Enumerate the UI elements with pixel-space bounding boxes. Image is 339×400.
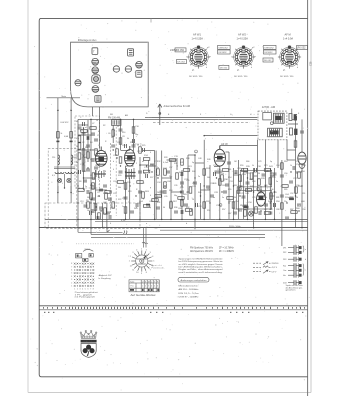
node K31: [209, 202, 210, 203]
node K32: [216, 177, 217, 178]
capacitor C11: [119, 129, 123, 131]
capacitor C57: [97, 216, 99, 220]
resistor R39: [232, 202, 235, 208]
svg-text:Änderungen vorbehalten: Änderungen vorbehalten: [181, 279, 208, 282]
svg-text:6,3: 6,3: [52, 175, 55, 177]
svg-text:6p: 6p: [98, 131, 100, 133]
wire V1: [77, 119, 79, 232]
svg-text:2: 2: [71, 282, 72, 284]
capacitor C16: [150, 164, 154, 166]
resistor R76: [181, 200, 184, 206]
IF pin grid box2: [89, 254, 93, 258]
Graetz crest banner: [81, 340, 97, 343]
socket AF M pin box left2: [264, 50, 277, 54]
resistor R68: [117, 181, 123, 184]
wire H26: [287, 149, 296, 151]
svg-text:R51: R51: [207, 210, 210, 212]
wire H30: [145, 117, 152, 119]
tube top-view AZ11 square: [95, 96, 101, 103]
capacitor C75: [138, 191, 142, 193]
svg-text:C9: C9: [90, 175, 92, 177]
svg-text:8: 8: [93, 289, 94, 291]
capacitor C31: [273, 173, 277, 175]
resistor R56: [124, 207, 127, 213]
dashed section line: [153, 122, 250, 124]
resistor R11: [105, 193, 108, 199]
wire V20: [170, 160, 172, 219]
circled marker D: [195, 150, 260, 207]
fuse Si2: [70, 132, 73, 138]
ruler below specks: [44, 312, 303, 313]
svg-text:R29: R29: [163, 187, 166, 189]
svg-text:C16: C16: [108, 200, 111, 202]
svg-text:2k: 2k: [222, 173, 224, 175]
svg-text:k: k: [105, 151, 106, 153]
wire V7: [92, 107, 94, 116]
wire V9: [106, 203, 108, 228]
Graetz crest crown: [80, 330, 97, 338]
paragraph: [179, 257, 224, 274]
svg-text:R81: R81: [276, 197, 279, 199]
svg-text:3: 3: [150, 252, 151, 254]
svg-text:R5: R5: [76, 173, 78, 175]
node K51: [77, 202, 78, 203]
IF shield dashed line: [115, 120, 117, 216]
svg-text:Auf Geräte-Rückw.: Auf Geräte-Rückw.: [131, 294, 157, 297]
resistor R40: [298, 172, 301, 178]
svg-text:R46: R46: [198, 192, 201, 194]
svg-text:C48: C48: [198, 158, 201, 160]
wire V29: [219, 166, 221, 219]
node J23: [90, 119, 92, 121]
svg-text:2: 2: [77, 289, 78, 291]
capacitor C20: [206, 186, 210, 188]
wire V38: [264, 140, 266, 220]
resistor R67: [119, 157, 122, 163]
capacitor C12: [124, 197, 128, 199]
wire V45: [301, 119, 303, 152]
svg-text:DK 1052 / 550: DK 1052 / 550: [189, 76, 203, 78]
wire V5: [95, 170, 97, 219]
wire V35: [253, 168, 255, 228]
capacitor C39: [290, 197, 294, 200]
svg-text:2: 2: [130, 256, 131, 258]
dial lamp: [249, 211, 254, 216]
wire V21: [176, 158, 178, 170]
capacitor C41: [300, 131, 304, 133]
wire V4: [90, 119, 92, 234]
tube V2 socket: [125, 168, 136, 179]
svg-text:C67: C67: [228, 213, 231, 215]
svg-text:AM 510 - 1630kHz: AM 510 - 1630kHz: [179, 288, 199, 291]
wire V19: [161, 151, 163, 220]
svg-text:C4: C4: [76, 156, 78, 158]
wire V14: [133, 119, 135, 151]
legend symbol rows: [253, 262, 271, 274]
capacitor C49: [223, 191, 227, 193]
svg-text:DK 052: DK 052: [220, 68, 228, 70]
wire H1: [78, 134, 95, 136]
svg-text:C24: C24: [113, 181, 116, 183]
socket AF W2: [232, 45, 255, 68]
resistor R43: [294, 141, 297, 147]
svg-text:DK1052: DK1052: [265, 52, 274, 54]
node J12: [233, 219, 235, 221]
svg-text:C88: C88: [276, 209, 279, 211]
svg-text:R66: R66: [246, 161, 249, 163]
svg-text:10: 10: [136, 272, 138, 274]
node K22: [157, 177, 158, 178]
capacitor C28: [246, 182, 250, 184]
svg-text:8: 8: [71, 263, 72, 265]
svg-text:C58: C58: [207, 189, 210, 191]
capacitor C59: [83, 122, 85, 126]
svg-text:220pF: 220pF: [285, 197, 292, 199]
wire H28: [296, 171, 303, 173]
svg-text:1+4 0,9A: 1+4 0,9A: [283, 37, 293, 40]
svg-text:R62: R62: [234, 185, 237, 187]
svg-text:C94: C94: [296, 161, 299, 163]
node K40: [265, 185, 266, 186]
svg-text:4: 4: [82, 289, 83, 291]
capacitor C63: [94, 167, 98, 169]
svg-text:C34: C34: [157, 182, 160, 184]
IF pin grid arc label: [83, 249, 93, 251]
capacitor C33: [264, 204, 268, 206]
resistor R26: [222, 169, 228, 172]
svg-text:20p: 20p: [135, 134, 138, 136]
svg-text:2n: 2n: [85, 186, 87, 188]
resistor R8: [78, 189, 84, 192]
svg-text:R85: R85: [284, 189, 287, 191]
svg-text:1k: 1k: [290, 165, 292, 167]
capacitor C22: [196, 203, 198, 207]
resistor R3: [82, 149, 85, 155]
svg-text:47k: 47k: [76, 138, 79, 140]
node K1: [83, 127, 84, 128]
svg-text:g: g: [98, 155, 99, 157]
node K4: [95, 159, 96, 160]
ruler tick text: [43, 307, 305, 309]
node J11: [219, 219, 221, 221]
node K28: [194, 177, 195, 178]
svg-text:AM: AM: [125, 114, 128, 117]
resistor R15: [132, 127, 135, 133]
svg-text:6: 6: [152, 265, 153, 267]
svg-text:4: 4: [150, 195, 151, 197]
svg-text:2: 2: [145, 286, 146, 288]
node J7: [170, 219, 172, 221]
capacitor C65: [91, 198, 95, 200]
svg-text:R75: R75: [258, 193, 261, 195]
node K18: [135, 195, 136, 196]
wire H12: [167, 159, 178, 161]
switch stub below mains: [107, 228, 110, 233]
svg-text:DK1052: DK1052: [219, 52, 228, 54]
svg-text:50: 50: [234, 197, 236, 199]
capacitor C14: [143, 148, 145, 152]
tube V3 AF W: [214, 146, 225, 166]
svg-text:R12: R12: [93, 203, 96, 205]
resistor R57: [112, 202, 115, 208]
svg-text:30: 30: [258, 173, 260, 175]
svg-text:10: 10: [192, 199, 194, 201]
tube top-view EBF11: [92, 67, 99, 74]
capacitor C52: [268, 212, 272, 214]
svg-text:L: L: [62, 183, 63, 185]
capacitor C13: [133, 139, 135, 143]
svg-text:5n: 5n: [157, 167, 159, 169]
resistor R31: [258, 179, 261, 185]
node J8: [181, 219, 183, 221]
wire V36: [257, 140, 259, 191]
svg-text:c: c: [253, 223, 254, 225]
resistor R72: [143, 205, 149, 208]
svg-text:6: 6: [157, 286, 158, 288]
svg-text:R22: R22: [118, 199, 121, 201]
tube V1 ECH: [95, 147, 107, 167]
svg-text:5: 5: [153, 261, 154, 263]
resistor R59: [82, 157, 85, 163]
wire H29: [292, 118, 296, 120]
svg-text:5: 5: [85, 289, 86, 291]
svg-text:4: 4: [113, 169, 114, 171]
tiny labels pass2: [76, 113, 305, 215]
wire H15: [195, 162, 204, 164]
wire H2: [78, 149, 91, 151]
wire V33: [243, 168, 245, 219]
svg-text:24052: 24052: [84, 249, 90, 251]
resistor R65: [105, 191, 111, 194]
svg-text:1: 1: [142, 286, 143, 288]
node K53: [90, 202, 91, 203]
node J19: [203, 135, 205, 137]
trafo bottom leads: [58, 174, 71, 203]
svg-text:Abgleich 107: Abgleich 107: [99, 274, 113, 277]
svg-text:R55: R55: [228, 189, 231, 191]
capacitor C79: [180, 191, 184, 193]
svg-text:Potentiom.: Potentiom.: [152, 266, 165, 269]
resistor R66: [104, 208, 107, 214]
svg-text:8: 8: [146, 272, 147, 274]
svg-text:4: 4: [136, 249, 137, 251]
capacitor C5: [94, 139, 98, 141]
svg-text:5p: 5p: [86, 151, 88, 153]
svg-text:C25: C25: [310, 61, 313, 66]
svg-text:R44: R44: [192, 171, 195, 173]
resistor R21: [183, 169, 189, 172]
svg-text:b. Empfang: b. Empfang: [99, 278, 111, 280]
wire H18: [226, 151, 230, 153]
node K26: [181, 185, 182, 186]
node K19: [139, 202, 140, 203]
tube V5 rectifier circle: [257, 189, 266, 206]
svg-text:220V~ 50Hz: 220V~ 50Hz: [229, 226, 241, 228]
node J6: [161, 219, 163, 221]
wire H21: [239, 185, 244, 187]
svg-text:R28: R28: [164, 157, 167, 159]
capacitor C35: [274, 203, 276, 207]
tube top-view ECH11: [92, 58, 99, 65]
IF pin grid row digits: [71, 263, 94, 290]
wire H10: [149, 165, 157, 167]
IF pin grid box1: [76, 254, 82, 258]
svg-text:5n: 5n: [222, 197, 224, 199]
node K41: [270, 202, 271, 203]
svg-text:11: 11: [132, 269, 134, 271]
svg-text:DB91052: DB91052: [265, 48, 275, 50]
svg-text:6: 6: [150, 152, 151, 154]
wire V12: [125, 166, 127, 219]
trafo core bars: [54, 167, 75, 169]
capacitor C74: [138, 171, 142, 173]
capacitor right of box: [288, 114, 298, 136]
svg-text:AF W2: AF W2: [238, 33, 246, 37]
resistor R12: [112, 130, 115, 136]
wire H6: [121, 150, 130, 152]
svg-text:10n: 10n: [87, 210, 90, 212]
wire V43: [286, 140, 288, 160]
node K49: [77, 149, 78, 150]
resistor R74: [164, 169, 167, 175]
capacitor C10: [99, 207, 103, 209]
capacitor C72: [125, 144, 127, 148]
capacitor C3: [87, 136, 89, 140]
resistor R45: [152, 199, 158, 202]
capacitor C47: [184, 204, 188, 206]
resistor R60: [81, 130, 87, 133]
node J25: [194, 154, 196, 156]
wire V25: [200, 183, 202, 219]
capacitor C56: [106, 212, 110, 214]
wire V26: [203, 140, 205, 220]
svg-text:1: 1: [74, 289, 75, 291]
capacitor C46: [174, 211, 178, 213]
svg-text:Netz: Netz: [62, 95, 67, 98]
svg-text:30: 30: [111, 137, 113, 139]
svg-text:AF W 2: AF W 2: [133, 143, 142, 147]
resistor R64: [98, 213, 101, 219]
output stage box2: [237, 191, 272, 209]
svg-text:DK 052: DK 052: [178, 62, 186, 64]
svg-text:C61: C61: [228, 169, 231, 171]
node K47: [298, 210, 299, 211]
tube top-view right small square: [136, 71, 142, 78]
node J21: [133, 119, 135, 121]
capacitor C45: [130, 211, 134, 213]
resistor R17: [143, 170, 149, 173]
capacitor C29: [255, 168, 257, 172]
capacitor C67: [103, 185, 107, 187]
svg-text:R16: R16: [122, 132, 125, 134]
svg-text:12700 - AM: 12700 - AM: [262, 105, 275, 109]
capacitor C34: [244, 205, 248, 208]
svg-text:n: n: [136, 207, 137, 209]
svg-text:R73: R73: [264, 165, 267, 167]
svg-text:7: 7: [150, 269, 151, 271]
svg-text:R23: R23: [128, 191, 131, 193]
svg-text:DK 1052 / 550: DK 1052 / 550: [280, 76, 294, 78]
tube top-view right circle: [136, 62, 143, 69]
resistor R42: [291, 211, 297, 214]
svg-text:FM: FM: [110, 114, 113, 116]
tube top-view ECL11 rounded square: [92, 75, 100, 83]
capacitor C61: [91, 133, 95, 135]
svg-text:30k: 30k: [118, 187, 121, 189]
svg-text:C82: C82: [258, 205, 261, 207]
svg-text:C70: C70: [240, 193, 243, 195]
capacitor C25: [215, 171, 219, 173]
svg-text:30p: 30p: [95, 150, 98, 152]
capacitor C37: [293, 166, 295, 170]
wire bus B+: [45, 218, 308, 220]
wire lower left: [78, 231, 123, 233]
svg-text:1+4 0,55A: 1+4 0,55A: [192, 37, 204, 40]
capacitor C24: [227, 162, 231, 164]
far right group brackets: [302, 246, 305, 276]
svg-text:R34: R34: [169, 190, 172, 192]
wire H19: [234, 174, 239, 176]
svg-text:R2: R2: [103, 125, 105, 127]
wire mains vertical N: [70, 98, 72, 193]
svg-text:R53: R53: [222, 161, 225, 163]
svg-text:5p: 5p: [270, 161, 272, 163]
svg-text:und Lautstärke auf Linksanschl: und Lautstärke auf Linksanschlag.: [179, 271, 224, 274]
svg-text:C90: C90: [284, 173, 287, 175]
svg-text:ZF2: ZF2: [283, 252, 286, 254]
node J5: [154, 219, 156, 221]
svg-text:C27: C27: [122, 198, 125, 200]
tuner shield dashed box: [75, 116, 100, 188]
capacitor C53: [280, 175, 284, 177]
node K27: [187, 191, 188, 192]
resistor R70: [139, 147, 142, 153]
svg-text:FM-Spektrum 700 kHz: FM-Spektrum 700 kHz: [190, 247, 214, 250]
svg-text:C98: C98: [302, 209, 305, 211]
node K23: [164, 185, 165, 186]
wire H14: [188, 154, 195, 156]
svg-text:3: 3: [71, 279, 72, 281]
tube top-view side lamp: [75, 80, 81, 86]
svg-text:R42: R42: [186, 207, 189, 209]
svg-text:C76: C76: [252, 197, 255, 199]
capacitor C18: [180, 182, 184, 184]
wire V11: [120, 119, 122, 150]
node K45: [290, 171, 291, 172]
svg-text:R79: R79: [270, 173, 273, 175]
svg-text:1n: 1n: [76, 162, 78, 164]
resistor R69: [116, 149, 119, 155]
wire bus B2: [95, 221, 308, 223]
node J1: [77, 219, 79, 221]
svg-text:1n: 1n: [246, 189, 248, 191]
capacitor C77: [164, 190, 166, 194]
node K3: [92, 149, 93, 150]
svg-text:R38: R38: [186, 158, 189, 160]
wire H32: [220, 144, 257, 146]
svg-text:C45: C45: [186, 180, 189, 182]
svg-text:2M: 2M: [157, 192, 160, 194]
capacitor C62: [92, 158, 94, 162]
resistor R47: [170, 202, 173, 208]
node J10: [203, 219, 205, 221]
svg-text:1: 1: [71, 286, 72, 288]
svg-text:R25: R25: [142, 145, 145, 147]
svg-text:3: 3: [80, 289, 81, 291]
resistor R61: [95, 149, 98, 155]
svg-text:ZF = 1 468kHz: ZF = 1 468kHz: [219, 251, 235, 253]
socket AF M pin box left: [264, 45, 277, 49]
